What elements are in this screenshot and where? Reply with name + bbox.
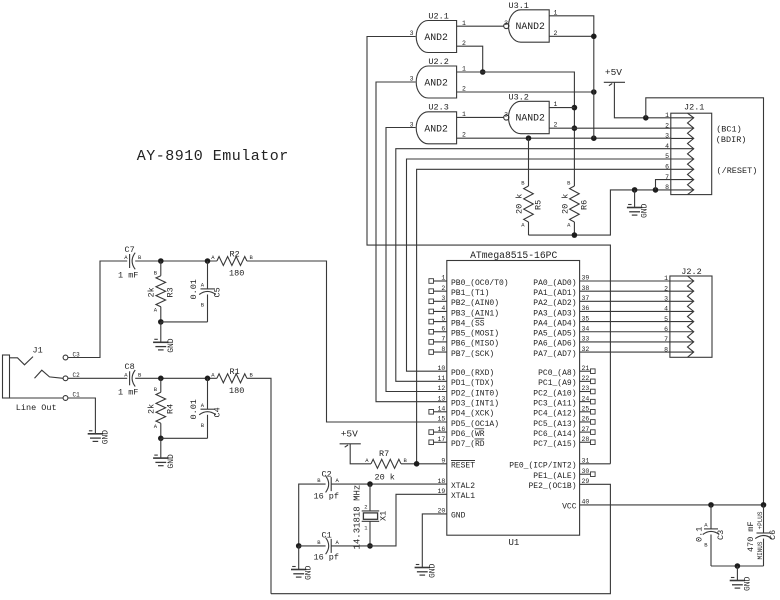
- svg-text:X1: X1: [379, 511, 389, 521]
- svg-text:+5V: +5V: [341, 428, 358, 439]
- svg-text:27: 27: [582, 426, 590, 433]
- svg-text:PB4_(SS: PB4_(SS: [451, 319, 485, 328]
- wire R5R6 to gnd riser: [529, 190, 671, 235]
- wire J2.1 pin5 to PD0: [407, 159, 671, 371]
- svg-text:PC6_(A14): PC6_(A14): [533, 430, 576, 439]
- svg-text:VCC: VCC: [562, 503, 577, 512]
- svg-text:3: 3: [441, 295, 445, 302]
- svg-text:GND: GND: [167, 454, 176, 469]
- power +5V top: [604, 67, 671, 118]
- svg-text:(BC1): (BC1): [716, 125, 742, 135]
- wire +5V frame to right rail: [646, 98, 764, 505]
- svg-text:30: 30: [582, 468, 590, 475]
- wire VCC row: [580, 504, 764, 506]
- junction R5 top tap: [526, 135, 532, 141]
- ground near C6: [730, 566, 753, 591]
- wires PA0-PA7 to J2.2: [580, 281, 670, 352]
- svg-text:0.1: 0.1: [695, 527, 705, 542]
- svg-text:180: 180: [229, 269, 244, 279]
- svg-text:PC5_(A13): PC5_(A13): [533, 420, 576, 429]
- svg-text:2: 2: [364, 504, 367, 511]
- svg-text:MINUS: MINUS: [757, 541, 764, 559]
- wire C2 left to ground col: [299, 484, 326, 546]
- svg-text:1: 1: [441, 275, 445, 282]
- junction U2.2 pin1: [480, 69, 486, 75]
- wire U3.1 pins1+2 tie: [549, 16, 594, 138]
- svg-text:7: 7: [664, 336, 668, 343]
- junction C4 top: [205, 376, 211, 382]
- U1 port A labels: [533, 275, 589, 359]
- capacitor C7: [118, 245, 142, 281]
- junction VCC rail: [761, 502, 767, 508]
- wire U2.2 pin1 to R6: [457, 72, 575, 186]
- svg-text:R6: R6: [580, 200, 590, 210]
- svg-text:PA3_(AD3): PA3_(AD3): [533, 309, 576, 318]
- wire R1 to bottom rail: [247, 378, 271, 593]
- svg-text:6: 6: [664, 326, 668, 333]
- wire C7 to R2: [135, 260, 217, 262]
- junction U2.2 pin2: [591, 89, 597, 95]
- svg-text:10: 10: [437, 365, 445, 372]
- junction R3 bottom: [158, 319, 164, 325]
- svg-text:NAND2: NAND2: [515, 113, 545, 124]
- wire U2.1 input from PE0 net: [367, 37, 610, 464]
- wire J1 tip to C7: [68, 261, 127, 358]
- svg-text:6: 6: [441, 325, 445, 332]
- wire C1 to XTAL1: [331, 494, 447, 546]
- svg-text:PB7_(SCK): PB7_(SCK): [451, 350, 494, 359]
- svg-text:PC1_(A9): PC1_(A9): [538, 379, 576, 388]
- U1 port D pins 10-17: [429, 365, 499, 449]
- junction pin7 branch: [653, 187, 659, 193]
- wire C2 to XTAL2: [331, 483, 447, 485]
- ground at J1: [88, 430, 111, 445]
- label (BC1): [716, 125, 742, 135]
- svg-text:GND: GND: [743, 576, 752, 591]
- svg-text:24: 24: [582, 395, 590, 402]
- crystal X1: [362, 484, 389, 546]
- junction R7 RESET: [414, 461, 420, 467]
- junction U3.1 column bottom: [591, 135, 597, 141]
- svg-text:1: 1: [462, 65, 466, 72]
- svg-text:J1: J1: [33, 346, 43, 356]
- svg-text:C6: C6: [768, 530, 778, 540]
- svg-text:(BDIR): (BDIR): [716, 135, 747, 145]
- svg-text:470 mF: 470 mF: [746, 521, 756, 552]
- junction R6 bottom: [572, 232, 578, 238]
- wire U2.1 pin1 to U3.1 output: [457, 25, 504, 27]
- junction C5 top: [205, 258, 211, 264]
- svg-text:1 mF: 1 mF: [118, 271, 138, 281]
- svg-text:25: 25: [582, 406, 590, 413]
- svg-text:7: 7: [665, 174, 669, 181]
- svg-text:PE1_(ALE): PE1_(ALE): [533, 472, 576, 481]
- junction C1 left: [296, 543, 302, 549]
- junction gnd stem: [632, 187, 638, 193]
- svg-text:R5: R5: [534, 200, 544, 210]
- svg-text:U2.1: U2.1: [428, 11, 448, 21]
- svg-text:3: 3: [504, 20, 508, 27]
- U1 port E and VCC pins: [509, 458, 595, 512]
- svg-text:AND2: AND2: [424, 78, 448, 89]
- svg-text:PC2_(A10): PC2_(A10): [533, 389, 576, 398]
- svg-text:PB2_(AIN0): PB2_(AIN0): [451, 299, 499, 308]
- resistor R1: [211, 367, 253, 396]
- svg-text:GND: GND: [101, 430, 110, 445]
- svg-text:U1: U1: [509, 538, 520, 548]
- svg-text:GND: GND: [428, 563, 437, 578]
- svg-text:5: 5: [665, 153, 669, 160]
- label (/RESET): [717, 166, 758, 176]
- junction U3.1 pin2: [591, 34, 597, 40]
- capacitor C3: [695, 505, 727, 566]
- wire J1 sleeve to ground: [68, 398, 96, 434]
- U1 port B pins 1-8: [429, 275, 509, 359]
- wire R5 drop: [528, 138, 530, 186]
- svg-text:6: 6: [665, 164, 669, 171]
- svg-text:PA7_(AD7): PA7_(AD7): [533, 350, 576, 359]
- capacitor C8: [118, 362, 142, 398]
- ground near J2.1: [627, 190, 650, 218]
- microcontroller U1 ATmega8515-16PC body: [447, 250, 580, 548]
- junction X1 bottom: [367, 543, 373, 549]
- svg-text:GND: GND: [305, 565, 314, 580]
- svg-text:GND: GND: [641, 203, 650, 218]
- wire R4-C4 bottoms: [161, 437, 208, 439]
- svg-text:PA4_(AD4): PA4_(AD4): [533, 319, 576, 328]
- svg-text:R4: R4: [166, 404, 176, 414]
- nand-gate U3.1: [504, 1, 558, 42]
- svg-text:PB0_(OC0/T0): PB0_(OC0/T0): [451, 279, 509, 288]
- junction R4 bottom: [158, 436, 164, 442]
- svg-text:J2.1: J2.1: [684, 103, 704, 113]
- svg-text:Line Out: Line Out: [16, 403, 57, 413]
- svg-text:2k: 2k: [147, 287, 157, 297]
- resistor R6: [561, 180, 590, 229]
- ground at R3: [153, 322, 176, 353]
- svg-text:3: 3: [504, 111, 508, 118]
- svg-text:7: 7: [441, 336, 445, 343]
- and-gate U2.2: [410, 57, 466, 98]
- svg-text:GND: GND: [451, 512, 466, 521]
- svg-text:XTAL2: XTAL2: [451, 482, 475, 491]
- junction R4 top: [158, 376, 164, 382]
- svg-text:20 k: 20 k: [515, 194, 525, 214]
- title text: [137, 148, 289, 165]
- svg-text:2: 2: [462, 132, 466, 139]
- wire U2.1 pin2 to U2.2 pin1: [457, 46, 483, 72]
- svg-text:16 pf: 16 pf: [314, 553, 340, 563]
- svg-text:C4: C4: [213, 407, 223, 417]
- U1 RESET XTAL GND pins: [437, 458, 475, 521]
- wire U2.2 input to PD3: [376, 82, 447, 402]
- wire U2.2 pin2: [457, 91, 594, 93]
- wire PE0 row: [580, 463, 611, 465]
- svg-text:PE2_(OC1B): PE2_(OC1B): [528, 482, 576, 491]
- svg-text:PD1_(TDX): PD1_(TDX): [451, 379, 494, 388]
- resistor R7: [365, 449, 407, 483]
- svg-text:PB6_(MISO): PB6_(MISO): [451, 340, 499, 349]
- svg-text:PA6_(AD6): PA6_(AD6): [533, 340, 576, 349]
- ground at R4: [153, 438, 176, 468]
- wire PE2 to bottom rail: [271, 484, 610, 593]
- svg-text:1: 1: [665, 112, 669, 119]
- wire U2.3 pin1 to U3.2 output: [457, 116, 504, 118]
- svg-text:U2.3: U2.3: [428, 103, 448, 113]
- svg-text:4: 4: [665, 143, 669, 150]
- wire C1 left segment: [299, 545, 326, 547]
- resistor R2: [211, 250, 253, 279]
- svg-text:PD4_(XCK): PD4_(XCK): [451, 410, 494, 419]
- wire U2.3 pin2 to J2.1 pin3: [457, 137, 671, 139]
- svg-text:28: 28: [582, 436, 590, 443]
- wire J2.1 pin4 to PD1: [396, 149, 671, 382]
- svg-text:5: 5: [664, 316, 668, 323]
- wire U3.2 pin1: [549, 107, 574, 109]
- svg-text:PD6_(WR: PD6_(WR: [451, 430, 485, 439]
- svg-text:PB1_(T1): PB1_(T1): [451, 289, 489, 298]
- svg-text:PD5_(OC1A): PD5_(OC1A): [451, 420, 499, 429]
- svg-text:R7: R7: [379, 449, 389, 459]
- wire R6 bottom: [573, 222, 575, 235]
- junction R3 top: [158, 258, 164, 264]
- svg-text:4: 4: [441, 305, 445, 312]
- wire U1 GND pin to ground: [422, 514, 447, 568]
- connector J1 line-out jack: [3, 346, 81, 401]
- svg-text:8: 8: [665, 184, 669, 191]
- svg-text:RESET: RESET: [451, 462, 475, 471]
- wire U2.3 input to PD2: [386, 128, 447, 392]
- label 14.31818 MHz: [353, 485, 363, 550]
- junction +5V frame: [643, 115, 649, 121]
- svg-text:C1: C1: [73, 391, 81, 398]
- junction VCC-C3: [708, 502, 714, 508]
- label (BDIR): [716, 135, 747, 145]
- svg-text:4: 4: [664, 306, 668, 313]
- svg-text:R3: R3: [166, 287, 176, 297]
- svg-text:(/RESET): (/RESET): [717, 166, 758, 176]
- svg-text:12: 12: [437, 385, 445, 392]
- resistor R4: [147, 378, 176, 438]
- resistor R3: [147, 261, 176, 322]
- power +5V at R7: [340, 428, 371, 464]
- svg-text:2: 2: [441, 285, 445, 292]
- junction C6 gnd: [735, 563, 741, 569]
- svg-text:PB3_(AIN1): PB3_(AIN1): [451, 309, 499, 318]
- wire J1 ring to C8: [68, 377, 127, 379]
- svg-text:PA5_(AD5): PA5_(AD5): [533, 330, 576, 339]
- connector J2.2: [664, 267, 712, 357]
- svg-text:0.01: 0.01: [189, 279, 199, 299]
- svg-text:R1: R1: [230, 367, 240, 377]
- capacitor C4: [189, 378, 223, 438]
- capacitor C1: [314, 531, 340, 563]
- svg-text:14.31818 MHz: 14.31818 MHz: [353, 485, 363, 550]
- U1 port C pins 21-28: [533, 365, 595, 449]
- capacitor C5: [189, 261, 223, 322]
- svg-text:16 pf: 16 pf: [314, 492, 340, 502]
- svg-text:20 k: 20 k: [375, 473, 395, 483]
- svg-text:PA1_(AD1): PA1_(AD1): [533, 289, 576, 298]
- svg-text:GND: GND: [167, 338, 176, 353]
- svg-text:23: 23: [582, 385, 590, 392]
- wire J2.1 pin6 to RESET: [417, 169, 671, 464]
- svg-text:21: 21: [582, 365, 590, 372]
- svg-text:PA0_(AD0): PA0_(AD0): [533, 279, 576, 288]
- svg-text:8: 8: [664, 346, 668, 353]
- svg-text:3: 3: [664, 296, 668, 303]
- svg-text:2: 2: [554, 122, 558, 129]
- svg-text:20 k: 20 k: [561, 194, 571, 214]
- svg-text:1 mF: 1 mF: [118, 388, 138, 398]
- label Line Out: [16, 403, 57, 413]
- svg-text:C3: C3: [716, 530, 726, 540]
- svg-text:NAND2: NAND2: [515, 21, 545, 32]
- svg-text:PD7_(RD: PD7_(RD: [451, 440, 485, 449]
- svg-text:C5: C5: [213, 287, 223, 297]
- connector J2.1: [665, 103, 712, 195]
- wire U3.1 pin2: [549, 35, 594, 37]
- junction U3.2 pin1 column: [572, 105, 578, 111]
- wire J2.1 pin7 branch: [656, 180, 671, 190]
- wire R7 to RESET: [401, 463, 447, 465]
- wire C8 to R1: [135, 377, 217, 379]
- svg-text:PC3_(A11): PC3_(A11): [533, 399, 576, 408]
- svg-text:XTAL1: XTAL1: [451, 492, 475, 501]
- svg-text:PC7_(A15): PC7_(A15): [533, 440, 576, 449]
- ground at U1: [415, 563, 438, 578]
- wire R3-C5 bottoms: [161, 321, 208, 323]
- resistor R5: [515, 180, 544, 229]
- svg-text:U2.2: U2.2: [428, 57, 448, 67]
- wire C3 C6 bottoms: [711, 565, 764, 567]
- svg-text:PD2_(INT0): PD2_(INT0): [451, 389, 499, 398]
- svg-text:PC4_(A12): PC4_(A12): [533, 410, 576, 419]
- svg-text:0.01: 0.01: [189, 399, 199, 419]
- svg-text:180: 180: [229, 386, 244, 396]
- svg-text:PA2_(AD2): PA2_(AD2): [533, 299, 576, 308]
- and-gate U2.3: [410, 103, 466, 144]
- capacitor C2: [314, 469, 340, 501]
- wire U3.2 pin2 to J2.1 pin2: [549, 127, 671, 129]
- svg-text:+5V: +5V: [605, 67, 622, 78]
- svg-text:22: 22: [582, 375, 590, 382]
- capacitor C6 electrolytic: [746, 505, 778, 566]
- nand-gate U3.2: [504, 93, 558, 134]
- svg-text:8: 8: [441, 346, 445, 353]
- svg-text:3: 3: [665, 133, 669, 140]
- wire R2 to PD5: [247, 261, 447, 422]
- junction J2.1 pin2 column: [572, 125, 578, 131]
- svg-text:+PLUS: +PLUS: [757, 511, 764, 529]
- svg-text:2k: 2k: [147, 404, 157, 414]
- svg-text:11: 11: [437, 375, 445, 382]
- svg-text:2: 2: [665, 122, 669, 129]
- ground at C1: [291, 546, 314, 580]
- svg-text:AND2: AND2: [424, 32, 448, 43]
- svg-text:2: 2: [462, 85, 466, 92]
- svg-text:1: 1: [664, 275, 668, 282]
- svg-text:AY-8910 Emulator: AY-8910 Emulator: [137, 148, 289, 165]
- svg-text:PE0_(ICP/INT2): PE0_(ICP/INT2): [509, 462, 576, 471]
- svg-text:PB5_(MOSI): PB5_(MOSI): [451, 330, 499, 339]
- junction X1 top: [367, 481, 373, 487]
- svg-text:26: 26: [582, 416, 590, 423]
- svg-text:PD3_(INT1): PD3_(INT1): [451, 399, 499, 408]
- svg-text:AND2: AND2: [424, 123, 448, 134]
- svg-text:PC0_(A8): PC0_(A8): [538, 369, 576, 378]
- and-gate U2.1: [410, 11, 466, 52]
- svg-text:R2: R2: [230, 250, 240, 260]
- wire R5 bottom: [528, 222, 530, 235]
- svg-text:PD0_(RXD): PD0_(RXD): [451, 369, 494, 378]
- svg-text:5: 5: [441, 315, 445, 322]
- svg-text:ATmega8515-16PC: ATmega8515-16PC: [470, 250, 557, 261]
- svg-text:13: 13: [437, 395, 445, 402]
- svg-text:2: 2: [664, 285, 668, 292]
